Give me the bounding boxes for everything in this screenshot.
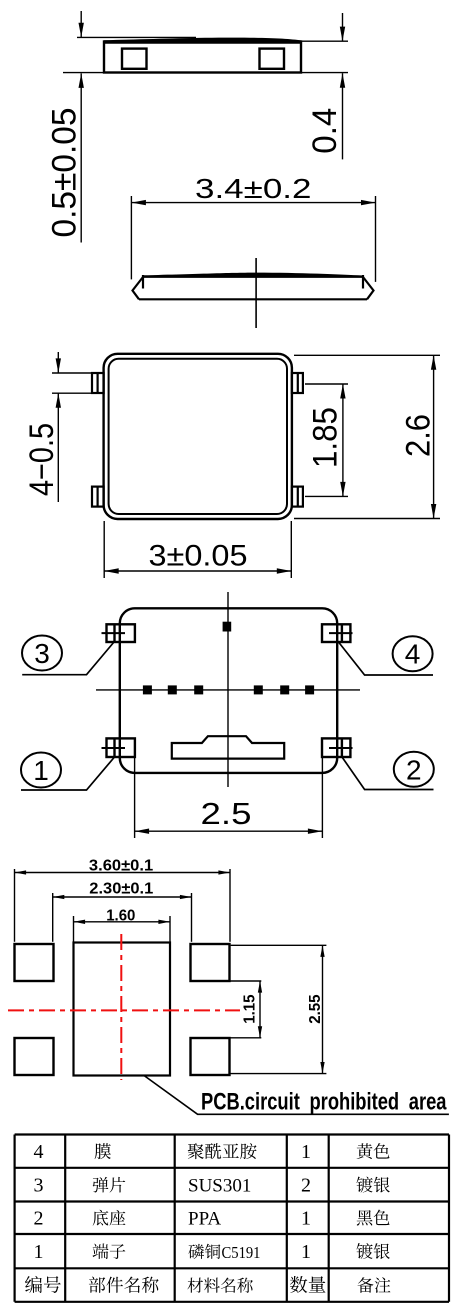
- dimension 2.5 arrow right: [308, 829, 323, 834]
- table header row: [25, 1276, 390, 1293]
- view1 side-view body base: [104, 42, 301, 73]
- svg-text:4−0.5: 4−0.5: [23, 423, 61, 496]
- view4 horizontal center line: [96, 689, 360, 691]
- dimension 2.30 arrow right: [180, 895, 192, 899]
- dimension 1.85 arrow down: [340, 482, 345, 497]
- dimension 1.15 arrow up: [258, 981, 262, 993]
- view1 left terminal: [122, 49, 147, 69]
- dimension 0.4 line lower segment: [342, 73, 344, 159]
- svg-text:1: 1: [34, 1241, 44, 1263]
- balloon circle 1: [21, 753, 61, 788]
- dimension 0.4 line upper segment: [342, 13, 344, 41]
- view2 left bent foot: [133, 277, 144, 299]
- view2 film top band: [143, 273, 363, 278]
- pcb pad top-left: [15, 944, 54, 981]
- dimension 1.15 line: [259, 981, 261, 1038]
- extension line top right of dim 0.4: [301, 40, 348, 42]
- extension line top left of dim 0.5: [77, 36, 196, 38]
- svg-text:3.60±0.1: 3.60±0.1: [89, 858, 153, 875]
- svg-text:1: 1: [301, 1208, 311, 1230]
- dim 1.85 extension line upper: [305, 383, 348, 385]
- svg-text:C5191: C5191: [222, 1243, 261, 1262]
- view2 extension line left: [130, 196, 132, 279]
- dimension 0.4 arrow up: [340, 73, 345, 88]
- dim 2.30 extension line right: [191, 893, 193, 942]
- dim 3.60 extension line right: [229, 869, 231, 942]
- view3 pin top-left: [92, 373, 104, 393]
- view3 pin bottom-right: [292, 487, 303, 507]
- dimension 2.6 arrow up: [431, 355, 436, 370]
- view4 bottom slot outline: [172, 736, 284, 758]
- dimension 4-0.5 line lower segment: [57, 393, 59, 502]
- dim 4-0.5 extension line upper: [52, 372, 91, 374]
- dimension 2.6 arrow down: [431, 504, 436, 519]
- dim 2.30 extension line left: [52, 893, 54, 942]
- view3 body outer outline: [104, 354, 292, 519]
- svg-text:PCB.circuit prohibited area: PCB.circuit prohibited area: [201, 1089, 447, 1116]
- dimension 3.4±0.2 line: [131, 202, 375, 204]
- svg-text:3: 3: [34, 1175, 44, 1197]
- svg-text:1.15: 1.15: [242, 994, 259, 1023]
- view4 top center mark: [223, 622, 232, 632]
- svg-text:4: 4: [405, 639, 421, 670]
- dimension 4-0.5 arrow down: [56, 358, 61, 373]
- dimension 0.5±0.05 line lower segment: [80, 73, 82, 242]
- view3 pin top-right: [292, 373, 303, 393]
- balloon leader 3: [22, 642, 114, 675]
- dimension 2.30 arrow left: [53, 895, 65, 899]
- table row 2 (base): [34, 1208, 390, 1230]
- balloon circle 3: [22, 636, 62, 671]
- pcb note leader and underline: [144, 1076, 449, 1115]
- dim 1.15 extension line lower: [229, 1037, 261, 1039]
- dim 1.60 extension line left: [73, 916, 75, 943]
- svg-text:3±0.05: 3±0.05: [149, 540, 248, 573]
- table row 3 (spring): [34, 1175, 390, 1197]
- svg-text:2.5: 2.5: [201, 796, 252, 831]
- pcb pad top-right: [191, 944, 230, 981]
- svg-text:1: 1: [301, 1141, 311, 1163]
- view4 pin3 top-left: [102, 624, 135, 642]
- svg-text:2.30±0.1: 2.30±0.1: [89, 881, 153, 898]
- balloon circle 4: [393, 636, 433, 671]
- balloon leader 4: [339, 642, 434, 675]
- pcb prohibited area rectangle: [74, 943, 171, 1076]
- svg-text:1.85: 1.85: [306, 407, 344, 468]
- dim 4-0.5 extension line lower: [52, 392, 91, 394]
- svg-text:1.60: 1.60: [106, 907, 135, 924]
- dimension 0.4 arrow down: [340, 27, 345, 42]
- view4 contact dash marks: [143, 685, 314, 694]
- BOM table grid: [15, 1133, 449, 1135]
- view4 vertical center line: [227, 592, 229, 787]
- pcb red center line vertical: [120, 934, 122, 1080]
- view2 right bent foot: [363, 277, 374, 299]
- view3 body inner outline: [109, 359, 287, 514]
- dim 1.60 extension line right: [169, 916, 171, 943]
- svg-text:2: 2: [406, 754, 422, 785]
- view1 metal film dome (part 4): [104, 38, 301, 44]
- svg-text:2.55: 2.55: [307, 994, 324, 1023]
- dimension 3.60 arrow right: [218, 870, 230, 874]
- dim 2.6 extension line upper: [294, 354, 440, 356]
- dim 2.55 extension line upper: [231, 944, 327, 946]
- view4 pin4 top-right: [322, 624, 353, 642]
- dimension 0.5±0.05 arrow up: [79, 73, 84, 88]
- dimension 2.55 arrow down: [320, 1062, 324, 1074]
- dim 2.5 extension line left: [134, 758, 136, 838]
- dim 3.60 extension line left: [14, 869, 16, 942]
- svg-text:0.4: 0.4: [306, 108, 344, 154]
- dimension 3.60 arrow left: [15, 870, 27, 874]
- dim 3±0.05 extension line right: [290, 521, 292, 578]
- svg-text:SUS301: SUS301: [188, 1176, 251, 1197]
- dimension 2.5 line: [135, 830, 323, 832]
- dimension 1.60 arrow left: [74, 920, 86, 924]
- dimension 2.55 arrow up: [320, 945, 324, 957]
- view4 pin1 bottom-left: [102, 738, 135, 757]
- table row 1 (terminal): [34, 1241, 390, 1263]
- svg-text:3: 3: [34, 638, 50, 669]
- dimension 1.85 arrow up: [340, 384, 345, 399]
- svg-text:2: 2: [301, 1175, 311, 1197]
- dimension 4-0.5 arrow up: [56, 393, 61, 408]
- dim 3±0.05 extension line left: [103, 521, 105, 578]
- view1 right terminal: [260, 49, 285, 69]
- dimension 2.55 line: [322, 945, 324, 1073]
- svg-text:0.5±0.05: 0.5±0.05: [46, 108, 84, 238]
- dimension 3.4±0.2 arrow left: [131, 200, 146, 205]
- svg-text:1: 1: [33, 755, 49, 786]
- dimension 0.5±0.05 arrow down: [79, 23, 84, 38]
- dimension 2.5 arrow left: [135, 829, 150, 834]
- dimension 0.5±0.05 line upper segment: [80, 11, 82, 37]
- dimension 1.60 line: [74, 921, 171, 923]
- view2 center line: [255, 258, 257, 328]
- dimension 3.4±0.2 arrow right: [361, 200, 376, 205]
- dimension 3±0.05 arrow right: [277, 568, 292, 573]
- dimension 4-0.5 line upper segment: [57, 352, 59, 373]
- dimension 1.60 arrow right: [158, 920, 170, 924]
- pcb red center line horizontal: [8, 1009, 240, 1011]
- pcb pad bottom-left: [15, 1038, 54, 1075]
- dimension 2.6 line: [433, 355, 435, 518]
- view2 bottom edge: [139, 298, 367, 300]
- dimension 3±0.05 line: [104, 570, 291, 572]
- dim 1.15 extension line upper: [229, 980, 261, 982]
- dimension 1.15 arrow down: [258, 1026, 262, 1038]
- balloon leader 1: [21, 757, 115, 790]
- svg-text:2.6: 2.6: [399, 414, 437, 457]
- svg-text:2: 2: [34, 1208, 44, 1230]
- dim 1.85 extension line lower: [305, 495, 348, 497]
- extension line bottom right of dim 0.4: [301, 72, 348, 74]
- pcb pad bottom-right: [191, 1038, 230, 1075]
- dimension 1.85 line: [342, 384, 344, 496]
- extension line bottom left of dim 0.5: [63, 72, 104, 74]
- balloon leader 2: [342, 757, 434, 790]
- svg-text:PPA: PPA: [188, 1209, 221, 1230]
- dimension 3.60±0.1 line: [15, 872, 231, 874]
- svg-text:4: 4: [34, 1141, 44, 1163]
- dimension 2.30±0.1 line: [53, 896, 192, 898]
- view3 pin bottom-left: [92, 487, 104, 507]
- view4 body outline: [120, 608, 337, 773]
- view2 extension line right: [375, 196, 377, 282]
- dimension 3±0.05 arrow left: [104, 568, 119, 573]
- view4 pin2 bottom-right: [322, 738, 353, 757]
- balloon circle 2: [394, 752, 434, 787]
- table row 4 (film): [34, 1141, 390, 1163]
- dim 2.6 extension line lower: [294, 518, 440, 520]
- dim 2.55 extension line lower: [229, 1073, 326, 1075]
- view2 profile body: [142, 275, 144, 289]
- svg-text:1: 1: [301, 1241, 311, 1263]
- dim 2.5 extension line right: [321, 758, 323, 838]
- svg-text:3.4±0.2: 3.4±0.2: [195, 173, 312, 204]
